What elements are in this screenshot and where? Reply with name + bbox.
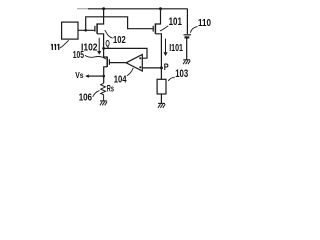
svg-text:Vs: Vs bbox=[75, 71, 84, 80]
svg-text:Rs: Rs bbox=[107, 83, 114, 93]
svg-text:Q: Q bbox=[105, 39, 109, 49]
svg-text:106: 106 bbox=[79, 93, 93, 104]
svg-text:102: 102 bbox=[113, 35, 126, 46]
svg-text:I101: I101 bbox=[169, 43, 183, 54]
svg-text:110: 110 bbox=[198, 18, 211, 29]
svg-text:103: 103 bbox=[175, 68, 188, 80]
svg-text:P: P bbox=[164, 62, 169, 73]
svg-text:104: 104 bbox=[114, 74, 127, 85]
svg-text:101: 101 bbox=[169, 16, 182, 28]
svg-text:105: 105 bbox=[73, 50, 85, 61]
